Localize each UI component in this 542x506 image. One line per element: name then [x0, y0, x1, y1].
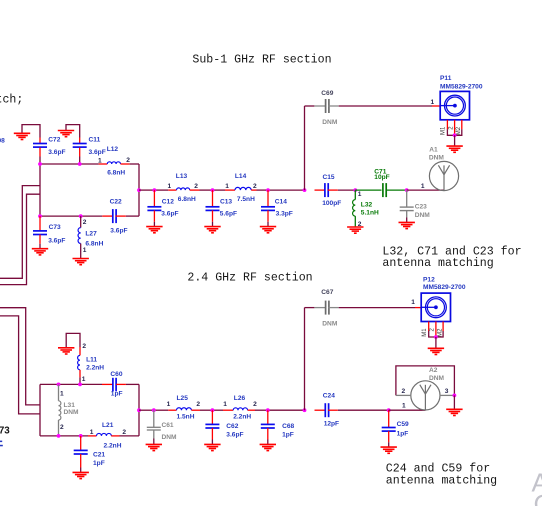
- svg-text:5.1nH: 5.1nH: [361, 210, 379, 217]
- node: junction dot C13: [211, 188, 215, 192]
- svg-text:2.2nH: 2.2nH: [104, 443, 122, 450]
- connector P11 MM5829-2700: [440, 91, 469, 119]
- svg-text:1: 1: [402, 402, 406, 409]
- svg-text:1: 1: [431, 99, 435, 106]
- capacitor C62 3.6pF: [205, 410, 219, 444]
- svg-text:73: 73: [0, 425, 10, 436]
- ground for C62: [204, 444, 220, 450]
- node: junction dot C59: [387, 408, 391, 412]
- svg-text:MM5829-2700: MM5829-2700: [440, 84, 483, 91]
- node: junction dot C21: [79, 434, 83, 438]
- svg-text:2: 2: [60, 424, 64, 431]
- wire: sub-1 box bottom rail left segment: [40, 215, 102, 217]
- inductor L25 1.5nH: [168, 409, 176, 411]
- inductor L27 6.8nH (shunt): [80, 216, 82, 228]
- svg-text:1: 1: [421, 183, 425, 190]
- wire: sub-1 box right edge: [138, 164, 140, 216]
- svg-text:1pF: 1pF: [282, 431, 294, 438]
- svg-text:MM5829-2700: MM5829-2700: [423, 284, 466, 291]
- node: junction dot L31 bottom: [57, 434, 61, 438]
- node: junction dot C12: [153, 188, 157, 192]
- svg-text:L26: L26: [234, 395, 246, 402]
- svg-text:3.6pF: 3.6pF: [110, 227, 127, 234]
- ground for C59: [381, 447, 397, 453]
- connector P12 MM5829-2700: [421, 293, 450, 321]
- wire: C67 branch horizontal: [305, 307, 315, 309]
- wire: A2 feed rectangle: [396, 366, 455, 396]
- capacitor C72 3.6pF: [33, 138, 47, 148]
- svg-text:M2: M2: [456, 126, 462, 135]
- ground for P12: [435, 337, 437, 348]
- ground for C23: [399, 222, 415, 228]
- svg-text:1: 1: [223, 401, 227, 408]
- svg-text:DNM: DNM: [322, 119, 338, 126]
- svg-text:DNM: DNM: [162, 434, 178, 441]
- wire: vertical to C69 branch: [304, 106, 306, 190]
- svg-text:Sub-1 GHz RF section: Sub-1 GHz RF section: [192, 53, 331, 66]
- node: junction dot 2.4 output: [137, 408, 141, 412]
- ground for C14: [260, 227, 276, 233]
- svg-text:C60: C60: [110, 371, 122, 378]
- ground for C21: [73, 472, 89, 478]
- ground for P11: [454, 135, 456, 145]
- svg-text:3.6pF: 3.6pF: [161, 210, 178, 217]
- svg-text:1: 1: [411, 299, 415, 306]
- svg-text:M2: M2: [438, 328, 444, 337]
- antenna A1 DNM: [429, 161, 458, 190]
- svg-text:DNM: DNM: [429, 375, 445, 382]
- svg-text:5.6pF: 5.6pF: [220, 210, 237, 217]
- capacitor C59 1pF (shunt): [382, 410, 396, 447]
- inductor L13 6.8nH: [168, 189, 176, 191]
- wire: C69 branch horizontal: [305, 105, 315, 107]
- wire: input wire lower (exits left, y=284.6): [0, 194, 40, 284]
- inductor L12 6.8nH: [99, 163, 108, 165]
- node: junction dot L31 top: [57, 383, 61, 387]
- svg-text:L12: L12: [107, 146, 119, 153]
- svg-text:C11: C11: [89, 137, 101, 144]
- node: junction dot C69 branch: [303, 188, 307, 192]
- capacitor C14 3.3pF: [261, 190, 275, 226]
- inductor L31 DNM (gray, shunt): [58, 384, 60, 400]
- ground for C61: [146, 444, 162, 450]
- svg-text:C23: C23: [415, 203, 427, 210]
- svg-text:2: 2: [194, 183, 198, 190]
- svg-text:C59: C59: [397, 421, 409, 428]
- capacitor C68 1pF: [261, 410, 275, 444]
- ground for C72: [22, 125, 40, 138]
- svg-text:1: 1: [358, 191, 362, 198]
- wire: 2.4 input wire lower (exits left, y=315.9): [0, 316, 40, 414]
- node: junction dot box right edge output: [137, 188, 141, 192]
- capacitor C11 3.6pF: [73, 138, 87, 148]
- wire: sub-1 ladder rail: [139, 189, 154, 191]
- node: junction dot L27: [79, 214, 83, 218]
- inductor L21 2.2nH (series in bottom rail): [88, 435, 97, 437]
- svg-text:3: 3: [445, 388, 449, 395]
- svg-text:C62: C62: [226, 423, 238, 430]
- svg-text:C67: C67: [321, 289, 333, 296]
- node: junction dot C61: [152, 408, 156, 412]
- svg-text:1pF: 1pF: [397, 431, 409, 438]
- svg-text:1: 1: [168, 183, 172, 190]
- svg-text:1: 1: [83, 247, 87, 254]
- capacitor C60 1pF (series in top rail): [102, 383, 113, 385]
- capacitor C21 1pF (shunt below box): [74, 436, 88, 472]
- capacitor C61 DNM (shunt): [153, 410, 155, 427]
- svg-text:2.4 GHz RF section: 2.4 GHz RF section: [187, 272, 312, 285]
- ground for L32: [347, 227, 363, 233]
- svg-text:2.2nH: 2.2nH: [233, 413, 251, 420]
- wire: 2.4 box left edge: [39, 384, 41, 436]
- svg-text:C15: C15: [323, 174, 335, 181]
- node: junction dot C62: [211, 408, 215, 412]
- svg-text:C13: C13: [220, 198, 232, 205]
- svg-text:C21: C21: [93, 452, 105, 459]
- capacitor C23 DNM (shunt): [406, 190, 408, 207]
- svg-text:1pF: 1pF: [111, 390, 123, 397]
- svg-text:2: 2: [196, 401, 200, 408]
- wire: vertical to C67 branch: [304, 308, 306, 411]
- P12 mounting pads M1 M2: [429, 322, 443, 338]
- wire: rail to antenna A2 pin 1: [389, 409, 426, 411]
- wire: 2.4 box top rail: [40, 383, 102, 385]
- svg-text:tch;: tch;: [0, 94, 23, 107]
- capacitor C13 5.6pF: [206, 190, 220, 226]
- svg-text:3.6pF: 3.6pF: [48, 238, 65, 245]
- svg-text:C72: C72: [48, 137, 60, 144]
- svg-text:L27: L27: [85, 231, 97, 238]
- net label fragment blue: [0, 441, 2, 443]
- antenna A2 DNM: [411, 381, 440, 410]
- svg-text:2: 2: [253, 183, 257, 190]
- ground for C73: [32, 249, 48, 255]
- ground for L11: [66, 333, 80, 347]
- svg-text:C73: C73: [49, 224, 61, 231]
- svg-text:A1: A1: [429, 147, 438, 154]
- svg-text:L14: L14: [235, 173, 247, 180]
- wire: sub-1 box top rail right segment: [130, 163, 139, 165]
- svg-text:DNM: DNM: [64, 409, 80, 416]
- svg-text:antenna matching: antenna matching: [382, 257, 493, 270]
- svg-text:6.8nH: 6.8nH: [85, 240, 103, 247]
- svg-text:1: 1: [82, 376, 86, 383]
- svg-text:2: 2: [126, 157, 130, 164]
- wire: 2.4 input wire upper (exits left, y=307.7): [0, 308, 40, 405]
- svg-text:100pF: 100pF: [322, 200, 341, 207]
- node: junction dot L32: [353, 188, 357, 192]
- wire: 2.4 box bottom rail: [40, 435, 88, 437]
- ground for C13: [204, 227, 220, 233]
- svg-text:12pF: 12pF: [324, 421, 339, 428]
- wire: 2.4 ladder rail: [139, 409, 154, 411]
- ground for A2 pin 3: [453, 395, 455, 409]
- svg-text:2: 2: [122, 429, 126, 436]
- svg-text:10pF: 10pF: [374, 174, 389, 181]
- svg-text:2: 2: [253, 401, 257, 408]
- wire: 2.4 box right edge: [138, 384, 140, 436]
- inductor L32 5.1nH (green, shunt): [354, 190, 356, 200]
- svg-text:L31: L31: [64, 402, 76, 409]
- svg-text:L21: L21: [102, 422, 114, 429]
- node: junction dot C11: [78, 162, 82, 166]
- wire: A2 pin 2 stub: [396, 394, 411, 396]
- svg-text:2: 2: [83, 219, 87, 226]
- wire: input wire upper (exits left, y=278): [0, 186, 40, 279]
- svg-text:M1: M1: [441, 126, 447, 135]
- svg-text:08: 08: [0, 137, 5, 144]
- capacitor C12 3.6pF: [147, 190, 161, 226]
- node: junction dot C23: [405, 188, 409, 192]
- svg-text:6.8nH: 6.8nH: [107, 169, 125, 176]
- ground for C12: [146, 227, 162, 233]
- svg-text:1: 1: [167, 401, 171, 408]
- node: junction dot P11 pads: [453, 133, 457, 137]
- svg-text:antenna matching: antenna matching: [386, 475, 497, 488]
- svg-text:2: 2: [82, 343, 86, 350]
- ground for C68: [260, 444, 276, 450]
- wire: C67 to P12: [339, 307, 415, 309]
- wire: A2 pin 3 stub: [440, 394, 455, 396]
- svg-text:6.8nH: 6.8nH: [178, 196, 196, 203]
- wire: sub-1 box bottom rail right segment: [126, 215, 139, 217]
- capacitor C69 DNM: [314, 99, 338, 113]
- svg-text:C22: C22: [110, 198, 122, 205]
- node: junction dot C14: [266, 188, 270, 192]
- node: junction dot A2 pin 3: [453, 394, 457, 398]
- svg-text:DNM: DNM: [429, 155, 445, 162]
- P11 mounting pads M1 M2: [447, 120, 461, 136]
- svg-text:3.6pF: 3.6pF: [226, 431, 243, 438]
- wire: rail to antenna A1: [407, 189, 444, 191]
- svg-text:C61: C61: [162, 422, 174, 429]
- capacitor C67 DNM: [314, 301, 338, 315]
- inductor L14 7.5nH: [225, 189, 235, 191]
- svg-text:3.3pF: 3.3pF: [276, 210, 293, 217]
- svg-text:2: 2: [402, 388, 406, 395]
- svg-text:C14: C14: [275, 198, 287, 205]
- svg-text:C69: C69: [321, 90, 333, 97]
- svg-text:C12: C12: [162, 198, 174, 205]
- svg-text:7.5nH: 7.5nH: [237, 196, 255, 203]
- ground for C11: [66, 125, 80, 138]
- ground for L27: [73, 259, 89, 265]
- svg-text:C24: C24: [323, 392, 335, 399]
- wire: sub-1 matching box left edge: [39, 164, 41, 216]
- node: junction dot L11: [78, 383, 82, 387]
- svg-text:1: 1: [225, 183, 229, 190]
- wire: C69 to P11: [339, 105, 432, 107]
- capacitor C24 12pF (series): [315, 403, 338, 417]
- inductor L11 2.2nH (shunt above box): [79, 347, 81, 355]
- svg-text:L11: L11: [86, 356, 97, 363]
- svg-text:P11: P11: [440, 75, 452, 82]
- svg-text:3.6pF: 3.6pF: [89, 149, 106, 156]
- wire: sub-1 box top rail left segment: [40, 163, 99, 165]
- svg-text:1pF: 1pF: [93, 460, 105, 467]
- svg-text:A2: A2: [429, 367, 438, 374]
- svg-text:3.6pF: 3.6pF: [48, 149, 65, 156]
- svg-text:2.2nH: 2.2nH: [86, 365, 104, 372]
- svg-text:C68: C68: [282, 423, 294, 430]
- node: junction dot box bottom-left: [38, 214, 42, 218]
- svg-text:1: 1: [90, 429, 94, 436]
- svg-text:M1: M1: [422, 328, 428, 337]
- node: junction dot C68: [266, 408, 270, 412]
- svg-text:L25: L25: [177, 395, 189, 402]
- inductor L26 2.2nH: [223, 409, 233, 411]
- svg-text:1: 1: [98, 158, 102, 165]
- svg-text:1: 1: [60, 391, 64, 398]
- node: junction dot C72 / box corner: [38, 162, 42, 166]
- node: junction dot P12 pads: [434, 335, 438, 339]
- node: junction dot C67 branch: [303, 408, 307, 412]
- svg-text:L13: L13: [176, 173, 188, 180]
- svg-text:DNM: DNM: [322, 321, 338, 328]
- capacitor C71 10pF (green, series): [355, 189, 381, 191]
- svg-text:C: C: [534, 489, 542, 506]
- capacitor C15 100pF (series): [315, 183, 338, 197]
- svg-text:DNM: DNM: [415, 212, 431, 219]
- svg-text:L32: L32: [361, 202, 373, 209]
- svg-text:P12: P12: [423, 277, 435, 284]
- capacitor C22 3.6pF (series): [102, 209, 126, 223]
- capacitor C73 3.6pF: [33, 216, 47, 248]
- svg-text:1.5nH: 1.5nH: [177, 413, 195, 420]
